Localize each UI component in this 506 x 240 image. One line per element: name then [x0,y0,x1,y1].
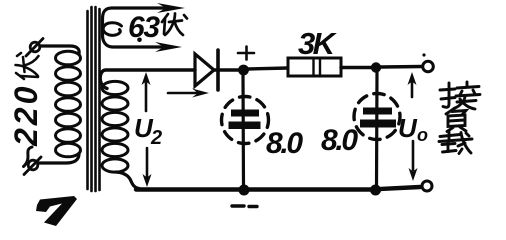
svg-text:8.0: 8.0 [321,124,358,157]
label minus [232,204,257,208]
arrow 6.3V bottom lead [155,42,182,52]
label volts glyph (fu) in ~220V [16,53,39,79]
wire primary bottom lead [38,154,79,163]
terminal bottom-left plug [24,157,41,175]
wire bottom rail [136,187,420,190]
secondary winding [102,81,128,172]
node D junction [370,185,381,196]
terminal top-left plug [26,39,43,57]
arrow Uo down [412,141,415,170]
node C junction [239,185,250,196]
capacitor C1 top plate [231,110,259,117]
wire diode to node A [214,68,239,72]
resistor R1 inner bands [314,58,321,76]
winding 6.3V inner turn [103,23,121,36]
wire secondary top lead [100,70,195,89]
arrow current direction [168,92,197,95]
label ~220V rotated [8,84,44,147]
resistor R1 3K body [288,58,341,76]
label fu (load 2nd char) [446,108,466,132]
label figure number 7 [36,196,77,226]
arrow Uo up [411,81,414,97]
node B junction [371,62,381,72]
svg-text:2: 2 [150,127,162,149]
transformer T core [88,7,100,191]
capacitor C1 can (dashed circle) [222,97,269,144]
wire primary top lead [40,46,79,54]
label volts glyph (fu) after 6.3 [162,14,187,36]
svg-text:220: 220 [8,84,44,147]
svg-text:o: o [417,125,428,145]
label jie (connect) [440,82,480,109]
label zai (load 3rd char) [439,131,472,154]
capacitor C1 lead [241,74,245,188]
capacitor C2 top plate [363,108,392,115]
svg-text:63: 63 [128,11,160,44]
arrow U2 down [146,148,149,177]
label tilde of ~220V [24,147,33,167]
capacitor C2 lead [375,72,379,188]
capacitor C2 can (dashed circle) [354,94,400,140]
winding 6.3V filament outer turn [103,8,171,47]
svg-text:8.0: 8.0 [266,127,303,160]
capacitor C1 bottom plate [229,122,261,130]
wire resistor to node B [341,66,376,69]
wire node B to output terminal [381,65,422,69]
terminal output top [423,61,434,72]
ink speck [422,53,425,56]
terminal output bottom [422,181,432,191]
svg-text:U: U [398,113,418,143]
label plus [238,47,254,60]
wire node A to resistor [248,68,288,69]
arrow U2 up [145,80,148,111]
node A junction [238,65,249,76]
svg-text:3K: 3K [298,26,338,61]
arrow 6.3V top lead [157,3,185,13]
wire secondary bottom lead [116,172,139,189]
diode D1 cathode bar [216,50,220,90]
capacitor C2 bottom plate [360,120,396,128]
primary winding [56,51,81,157]
diode D1 [195,54,214,86]
